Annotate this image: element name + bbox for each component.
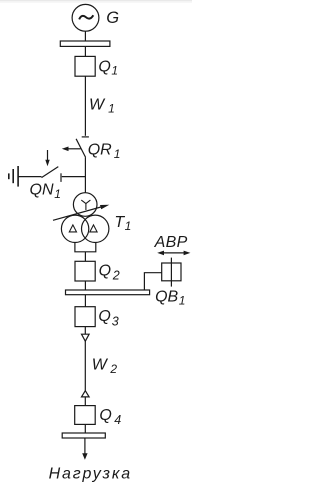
earthing switch QN1	[18, 150, 85, 182]
wire	[84, 295, 86, 307]
open arrow down (W2 start)	[82, 334, 90, 341]
wire	[84, 424, 86, 433]
wire	[75, 242, 96, 261]
busbar A1	[60, 41, 110, 46]
wire W2 segment	[84, 341, 86, 391]
breaker Q1	[75, 56, 95, 76]
svg-text:G: G	[106, 9, 119, 27]
svg-text:Нагрузка: Нагрузка	[49, 465, 132, 482]
wire	[84, 157, 86, 193]
busbar A2	[66, 290, 150, 295]
open arrow up (W2 end)	[82, 391, 90, 397]
wire	[84, 397, 86, 406]
wire	[144, 273, 161, 290]
wire	[84, 31, 86, 41]
wire	[84, 327, 86, 335]
disconnector QR1	[62, 137, 89, 158]
wire W1 segment	[84, 76, 86, 136]
svg-text:АВР: АВР	[154, 234, 188, 251]
generator G1	[72, 4, 99, 31]
wire	[84, 46, 86, 56]
transformer T1	[53, 193, 109, 243]
breaker Q2	[75, 261, 95, 281]
breaker QB1	[162, 258, 181, 287]
breaker Q4	[75, 406, 96, 425]
load arrow	[82, 438, 87, 460]
ABP transfer arrow	[157, 251, 190, 256]
ground	[9, 166, 18, 187]
wire	[84, 281, 86, 290]
breaker Q3	[75, 307, 95, 327]
busbar A3	[62, 433, 105, 438]
